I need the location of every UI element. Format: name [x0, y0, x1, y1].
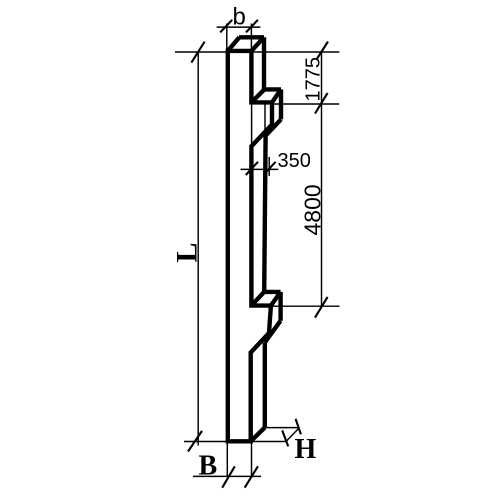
svg-text:B: B	[199, 451, 218, 482]
shaft back-right edge mid	[264, 136, 265, 292]
shaft back-right edge upper	[262, 37, 266, 89]
tick b left	[220, 20, 232, 33]
top face back edge	[239, 35, 264, 39]
tick 4800 bottom	[315, 297, 328, 318]
corbel C2 reference line	[272, 305, 340, 307]
extension line B right	[251, 444, 253, 477]
dimension line L	[197, 52, 199, 446]
corbel C1 back-right vertical edge	[279, 89, 283, 119]
top face right slant edge	[251, 37, 264, 51]
corbel C1 right slant edge	[272, 89, 281, 102]
corbel C2 right slant edge	[271, 292, 281, 306]
top face left slant edge	[228, 37, 240, 51]
tick B right	[245, 466, 258, 487]
bottom reference line	[184, 441, 288, 443]
dimension line b	[217, 26, 261, 28]
svg-text:L: L	[171, 242, 204, 262]
back bottom reference line H	[266, 427, 300, 429]
column front profile outline	[228, 51, 272, 441]
dimension line 1775/4800	[321, 52, 323, 306]
tick 1775/4800 shared	[315, 93, 328, 114]
tick 350 left	[246, 162, 258, 175]
extension line b right	[250, 24, 252, 56]
tick 350 right	[263, 162, 275, 175]
corbel C2 back edge	[264, 290, 280, 294]
tick H right	[296, 419, 301, 434]
svg-text:b: b	[233, 4, 246, 31]
tick 1775 top	[317, 42, 329, 60]
svg-text:4800: 4800	[300, 184, 326, 235]
tick H left	[282, 430, 288, 446]
corbel C1 back edge	[264, 87, 281, 91]
tick b right	[246, 20, 258, 33]
tick B left	[222, 466, 235, 487]
tick L bottom	[188, 431, 202, 452]
extension line 350 right	[268, 157, 270, 176]
corbel C2 back slope edge	[265, 321, 281, 343]
corbel C2 left slant edge	[251, 292, 264, 306]
extension line b left	[226, 24, 228, 52]
shaft back-right edge bottom	[263, 343, 267, 428]
svg-text:1775: 1775	[303, 57, 325, 102]
corbel C1 reference line	[274, 103, 340, 105]
top reference line	[175, 51, 339, 53]
extension line 350 left	[251, 104, 253, 176]
corbel C2 back-right vertical edge	[278, 292, 282, 321]
extension line B left	[226, 444, 228, 477]
svg-text:H: H	[295, 434, 317, 465]
shaft back edge hidden segment	[264, 105, 266, 137]
dimension line 350	[241, 168, 279, 170]
corbel C1 back slope edge	[264, 119, 281, 136]
svg-text:350: 350	[278, 150, 311, 172]
bottom right slant edge	[251, 428, 265, 442]
dimension line B	[193, 475, 261, 477]
dimension line H diagonal	[287, 428, 300, 441]
corbel C1 left slant edge	[251, 89, 264, 102]
tick L top	[191, 42, 204, 63]
